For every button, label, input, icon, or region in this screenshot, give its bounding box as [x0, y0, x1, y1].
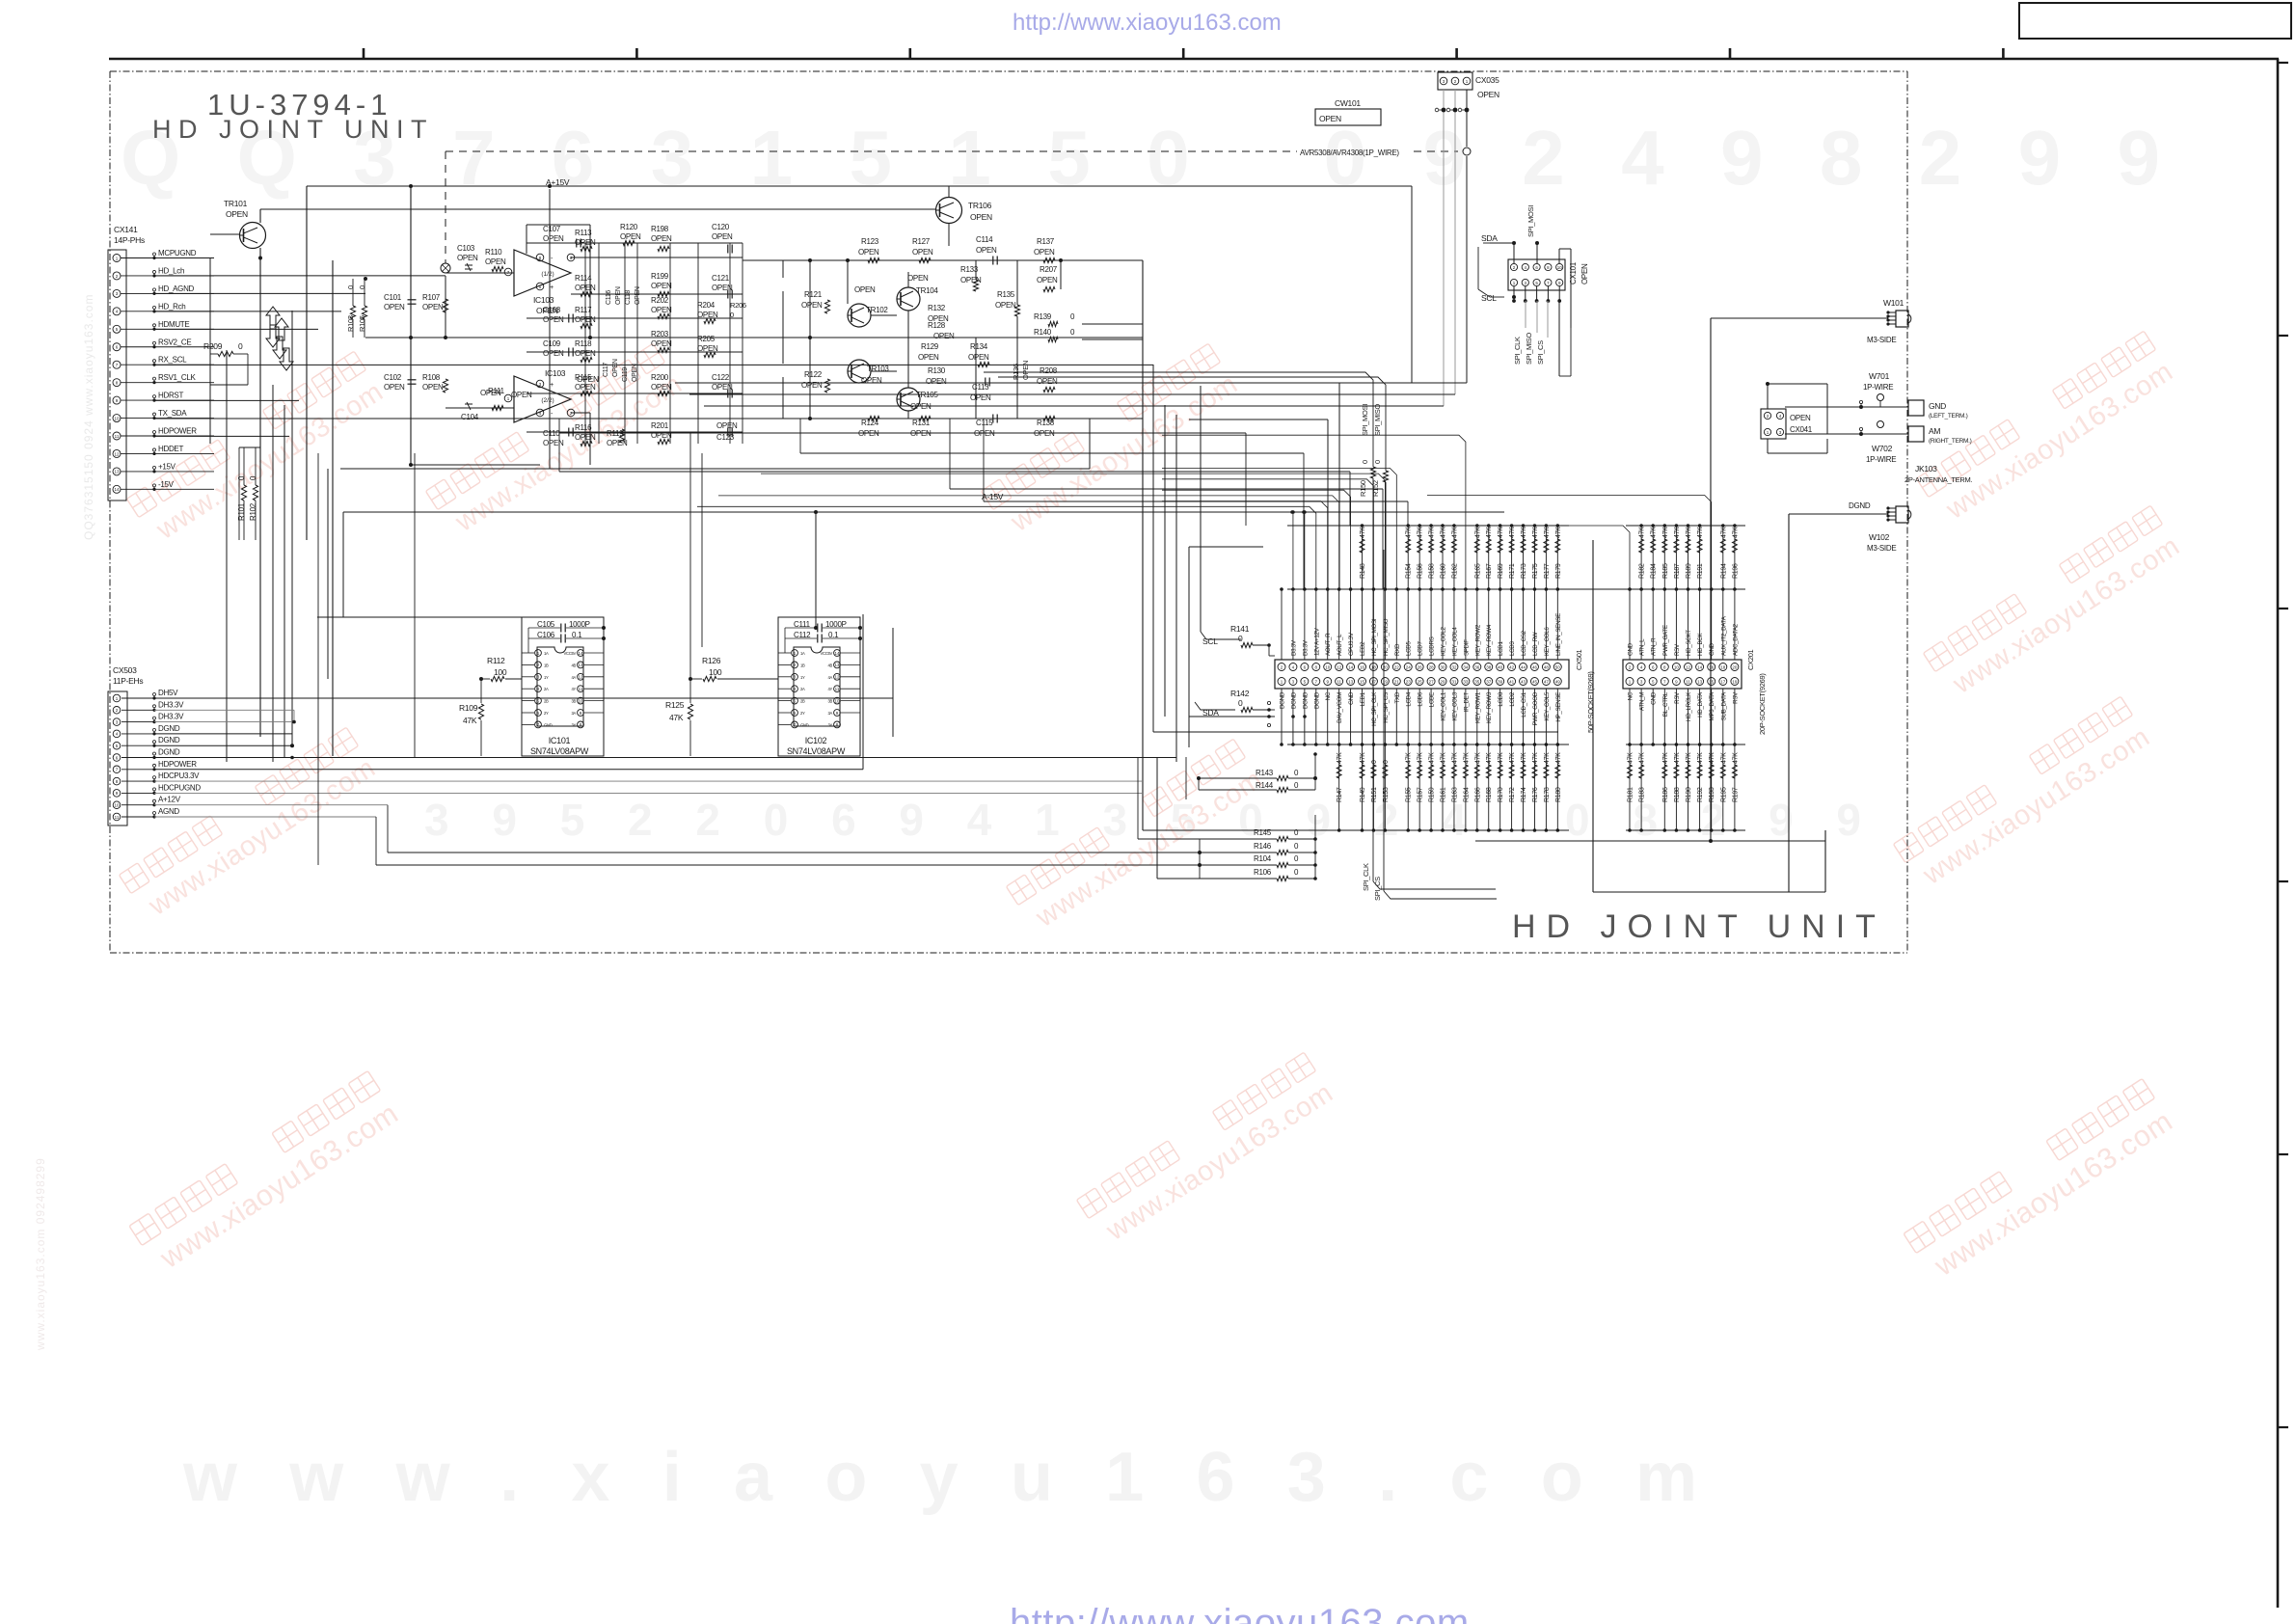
svg-text:13: 13 — [834, 663, 840, 667]
svg-text:R115: R115 — [575, 373, 592, 382]
svg-text:13: 13 — [578, 663, 583, 667]
svg-text:18: 18 — [1371, 664, 1377, 669]
svg-text:R110: R110 — [485, 248, 502, 257]
svg-text:NC: NC — [1628, 691, 1634, 700]
svg-text:47K: 47K — [669, 713, 684, 722]
svg-text:HDPOWER: HDPOWER — [158, 427, 197, 436]
svg-text:1A: 1A — [544, 651, 549, 656]
svg-text:1P-WIRE: 1P-WIRE — [1866, 455, 1896, 464]
wire CX201 column 5 — [1672, 663, 1680, 671]
svg-text:OPEN: OPEN — [995, 301, 1016, 310]
svg-text:11: 11 — [115, 815, 120, 820]
svg-text:R149: R149 — [1360, 787, 1366, 802]
svg-text:10: 10 — [578, 698, 583, 703]
svg-text:47K: 47K — [1697, 527, 1704, 538]
svg-text:47K: 47K — [1474, 527, 1481, 538]
svg-text:0: 0 — [1238, 698, 1243, 708]
svg-text:R104: R104 — [1254, 854, 1272, 863]
svg-text:47K: 47K — [1697, 752, 1704, 764]
svg-text:SPI_MISO: SPI_MISO — [1373, 404, 1382, 436]
resistor R156 47K — [1418, 526, 1420, 589]
svg-text:47K: 47K — [1532, 527, 1539, 538]
svg-text:0: 0 — [1383, 760, 1390, 764]
svg-text:1B: 1B — [800, 663, 805, 667]
svg-text:OPEN: OPEN — [422, 383, 444, 392]
connector W102 — [1789, 501, 1911, 892]
wire CX501 column 5 — [1327, 589, 1329, 660]
svg-text:OPEN: OPEN — [651, 339, 672, 348]
svg-text:R207: R207 — [1040, 265, 1058, 274]
resistor R157 47K — [1418, 744, 1420, 830]
svg-text:DGND: DGND — [1302, 691, 1309, 709]
connector CX501 50P-SOCKET — [697, 435, 1745, 832]
svg-text:VCC5V: VCC5V — [821, 651, 833, 656]
svg-text:47K: 47K — [1418, 527, 1424, 538]
svg-text:CX141: CX141 — [114, 225, 138, 234]
wire CX501 column 10 — [1384, 589, 1386, 660]
svg-text:OPEN: OPEN — [854, 285, 876, 294]
svg-text:LCD1: LCD1 — [1498, 641, 1504, 656]
svg-text:C114: C114 — [976, 235, 993, 244]
svg-text:CX501: CX501 — [1575, 649, 1583, 670]
svg-text:OPEN: OPEN — [858, 248, 879, 257]
svg-text:DGND: DGND — [1280, 691, 1286, 709]
connector CX041 — [1761, 382, 1827, 453]
svg-text:R118: R118 — [575, 339, 592, 348]
resistor R209 — [203, 341, 248, 385]
connector W101 — [1711, 298, 1911, 841]
svg-text:R126: R126 — [702, 656, 721, 665]
svg-text:R107: R107 — [422, 293, 441, 302]
svg-text:OPEN: OPEN — [1580, 263, 1589, 284]
svg-text:3Y: 3Y — [827, 722, 832, 727]
svg-text:38: 38 — [1486, 664, 1492, 669]
resistor R178 47K — [1545, 744, 1547, 830]
wire rows from CX141 — [154, 275, 446, 277]
svg-text:R201: R201 — [651, 421, 669, 430]
svg-text:DAV_VCOM: DAV_VCOM — [1337, 692, 1343, 723]
svg-text:R125: R125 — [665, 700, 685, 710]
wire CX501 column 16 — [1453, 589, 1455, 660]
svg-text:OPEN: OPEN — [918, 353, 939, 362]
svg-text:+: + — [550, 382, 554, 389]
svg-text:R155: R155 — [1406, 787, 1413, 802]
resistor R189 47K — [1688, 526, 1689, 589]
svg-text:+: + — [550, 284, 554, 291]
svg-text:R183: R183 — [1639, 787, 1646, 802]
wire CX201 column 7 — [1696, 663, 1704, 671]
svg-text:4A: 4A — [571, 675, 576, 680]
resistors R101 R102 vertical — [237, 447, 260, 540]
svg-text:R173: R173 — [1521, 563, 1527, 579]
svg-text:CX101: CX101 — [1569, 261, 1578, 284]
svg-text:R106: R106 — [1254, 868, 1272, 877]
svg-text:C113: C113 — [972, 383, 989, 392]
svg-text:14: 14 — [1697, 664, 1703, 669]
svg-text:HC_SPI_MOSI: HC_SPI_MOSI — [1371, 618, 1378, 656]
svg-text:2B: 2B — [800, 699, 805, 704]
svg-text:R114: R114 — [575, 274, 592, 283]
svg-text:KEY_COL3: KEY_COL3 — [1451, 691, 1458, 720]
svg-text:10: 10 — [114, 803, 120, 808]
svg-text:HDDET: HDDET — [158, 445, 183, 453]
svg-text:33: 33 — [1463, 679, 1469, 684]
svg-text:R188: R188 — [1674, 787, 1681, 802]
svg-text:16: 16 — [1360, 664, 1365, 669]
svg-text:C116: C116 — [606, 290, 612, 305]
svg-text:OPEN: OPEN — [910, 429, 932, 438]
svg-text:1P-WIRE: 1P-WIRE — [1863, 383, 1893, 392]
svg-text:HC_SPI_CS: HC_SPI_CS — [1383, 692, 1390, 723]
svg-text:OPEN: OPEN — [933, 332, 955, 340]
svg-text:2A: 2A — [800, 687, 805, 691]
svg-text:R192: R192 — [1697, 787, 1704, 802]
jumper CW101 — [1315, 98, 1381, 125]
svg-text:14: 14 — [578, 651, 583, 656]
svg-text:OPEN: OPEN — [543, 349, 564, 358]
svg-text:47K: 47K — [1451, 752, 1458, 764]
svg-text:C115: C115 — [976, 419, 993, 427]
svg-text:MCPUGND: MCPUGND — [158, 249, 197, 257]
svg-text:SN74LV08APW: SN74LV08APW — [530, 746, 589, 756]
svg-text:R186: R186 — [1662, 787, 1669, 802]
svg-text:OPEN: OPEN — [612, 359, 619, 377]
svg-text:SPI_CS: SPI_CS — [1373, 877, 1382, 901]
svg-text:R182: R182 — [1639, 563, 1646, 579]
resistor R158 47K — [1430, 526, 1432, 589]
svg-text:R169: R169 — [1498, 563, 1504, 579]
svg-text:R156: R156 — [1418, 563, 1424, 579]
svg-text:OPEN: OPEN — [226, 209, 248, 219]
svg-text:OPEN: OPEN — [543, 234, 564, 243]
svg-text:CX035: CX035 — [1475, 75, 1499, 85]
svg-text:OPEN: OPEN — [1037, 377, 1058, 386]
svg-text:R206: R206 — [730, 301, 746, 310]
svg-text:DGND: DGND — [158, 748, 180, 757]
resistor R166 47K — [1476, 744, 1478, 830]
wire CX501 column 15 — [1442, 589, 1444, 660]
svg-text:MP3_DATA: MP3_DATA — [1709, 691, 1715, 721]
resistor R192 47K — [1699, 744, 1701, 830]
svg-text:12: 12 — [114, 451, 120, 456]
svg-text:R102: R102 — [249, 502, 257, 521]
resistor R155 47K — [1407, 744, 1409, 830]
svg-text:47K: 47K — [1555, 527, 1562, 538]
svg-text:12: 12 — [578, 675, 583, 680]
svg-text:17: 17 — [1720, 679, 1726, 684]
svg-text:A+15V: A+15V — [546, 177, 570, 187]
svg-text:DGND: DGND — [158, 736, 180, 744]
svg-text:R129: R129 — [921, 342, 939, 351]
svg-text:LED1: LED1 — [1360, 691, 1366, 706]
wire W702 — [1859, 421, 1896, 465]
svg-text:13: 13 — [114, 470, 120, 474]
svg-text:R196: R196 — [1732, 563, 1739, 579]
wire CX501 column 21 — [1511, 589, 1513, 660]
svg-text:AUX_IT2_DATA: AUX_IT2_DATA — [1720, 615, 1727, 656]
svg-text:11: 11 — [115, 434, 120, 439]
CX503 wires — [154, 614, 1176, 817]
resistor R191 47K — [1699, 526, 1701, 589]
svg-text:JK103: JK103 — [1915, 464, 1937, 474]
svg-text:47K: 47K — [1509, 527, 1516, 538]
svg-text:D3.3V: D3.3V — [1290, 639, 1297, 656]
svg-text:DGND: DGND — [1313, 691, 1320, 709]
svg-text:R193: R193 — [1709, 787, 1715, 802]
svg-text:12V A+12V: 12V A+12V — [1313, 627, 1320, 656]
svg-text:C102: C102 — [384, 373, 402, 382]
svg-text:LCD2: LCD2 — [1509, 691, 1516, 706]
svg-text:IC101: IC101 — [549, 736, 571, 745]
svg-text:47K: 47K — [1662, 752, 1669, 764]
svg-text:DH3.3V: DH3.3V — [158, 700, 184, 709]
svg-text:R166: R166 — [1474, 787, 1481, 802]
svg-text:1Y: 1Y — [800, 675, 805, 680]
svg-text:39: 39 — [1498, 679, 1503, 684]
svg-text:OPEN: OPEN — [1034, 248, 1055, 257]
svg-text:R153: R153 — [1383, 787, 1390, 802]
svg-text:47K: 47K — [1555, 752, 1562, 764]
svg-text:22: 22 — [1394, 664, 1400, 669]
svg-text:IC103: IC103 — [545, 368, 566, 378]
svg-text:R140: R140 — [1034, 328, 1052, 337]
svg-text:3B: 3B — [571, 699, 576, 704]
svg-text:47K: 47K — [1686, 527, 1692, 538]
svg-text:R141: R141 — [1230, 624, 1250, 634]
IC IC101 — [522, 617, 604, 756]
capacitor C-IC102 — [785, 620, 862, 730]
svg-text:ATN_L: ATN_L — [1639, 638, 1646, 656]
resistor R175 47K — [1533, 526, 1535, 589]
svg-text:47K: 47K — [1360, 527, 1366, 538]
svg-text:R168: R168 — [1486, 787, 1493, 802]
svg-text:R135: R135 — [997, 290, 1015, 299]
svg-text:R209: R209 — [203, 341, 223, 351]
svg-text:C104: C104 — [461, 413, 479, 421]
svg-text:OPEN: OPEN — [651, 234, 672, 243]
resistor R187 47K — [1675, 526, 1677, 589]
svg-text:21: 21 — [1394, 679, 1400, 684]
svg-text:C108: C108 — [543, 306, 561, 314]
svg-text:R165: R165 — [1474, 563, 1481, 579]
svg-text:SPI_CLK: SPI_CLK — [1513, 337, 1522, 365]
svg-text:10: 10 — [1674, 664, 1680, 669]
svg-text:13: 13 — [1697, 679, 1703, 684]
svg-text:0: 0 — [358, 285, 366, 289]
svg-text:10: 10 — [114, 416, 120, 420]
wire CX201 column 2 — [1637, 663, 1645, 671]
svg-text:47K: 47K — [1639, 752, 1646, 764]
svg-text:LCD3: LCD3 — [1509, 641, 1516, 656]
svg-text:SPDIF: SPDIF — [1463, 639, 1470, 656]
node junction circle — [441, 263, 450, 273]
svg-text:R174: R174 — [1521, 787, 1527, 802]
svg-text:4A: 4A — [827, 675, 832, 680]
svg-text:47K: 47K — [1406, 752, 1413, 764]
svg-text:GND: GND — [1628, 642, 1634, 656]
svg-text:R147: R147 — [1337, 787, 1343, 802]
wire CX501 column 7 — [1350, 589, 1352, 660]
svg-text:10: 10 — [1325, 664, 1331, 669]
svg-text:NC: NC — [1325, 691, 1332, 700]
svg-text:14: 14 — [834, 651, 840, 656]
svg-text:+15V: +15V — [158, 462, 176, 471]
svg-text:R179: R179 — [1555, 563, 1562, 579]
svg-text:HD_DATA: HD_DATA — [1697, 691, 1704, 717]
svg-text:4Y: 4Y — [827, 687, 832, 691]
svg-text:47K: 47K — [1639, 527, 1646, 538]
svg-text:OPEN: OPEN — [712, 232, 733, 241]
svg-text:GND: GND — [1651, 691, 1658, 705]
svg-text:HDRST: HDRST — [158, 392, 183, 400]
svg-text:DGND: DGND — [158, 724, 180, 733]
svg-text:OPEN: OPEN — [485, 257, 506, 266]
svg-text:OPEN: OPEN — [968, 353, 989, 362]
svg-text:R198: R198 — [651, 225, 669, 233]
svg-text:M3-SIDE: M3-SIDE — [1867, 544, 1896, 553]
svg-text:43: 43 — [1521, 679, 1526, 684]
svg-text:SUB_DATA: SUB_DATA — [1720, 691, 1727, 721]
wire CX501 column 3 — [1304, 589, 1306, 660]
small components analog section — [346, 223, 746, 447]
svg-text:47K: 47K — [1686, 752, 1692, 764]
svg-text:RSV: RSV — [1674, 691, 1681, 704]
svg-text:KEY_COL6: KEY_COL6 — [1544, 627, 1551, 656]
svg-text:http://www.xiaoyu163.com: http://www.xiaoyu163.com — [1013, 10, 1282, 36]
svg-text:R161: R161 — [1441, 787, 1447, 802]
svg-text:PWR_GOOD: PWR_GOOD — [1532, 691, 1539, 725]
svg-text:47K: 47K — [1532, 752, 1539, 764]
resistor R194 47K — [1722, 526, 1724, 589]
svg-text:47K: 47K — [1429, 752, 1436, 764]
svg-text:VCC5V: VCC5V — [564, 651, 577, 656]
connector CX141 — [108, 225, 214, 501]
svg-text:GND: GND — [1348, 691, 1355, 705]
svg-text:47K: 47K — [1360, 752, 1366, 764]
wire CX501 column 9 — [1372, 589, 1374, 660]
svg-text:R162: R162 — [1451, 563, 1458, 579]
svg-text:LCD_CS2: LCD_CS2 — [1521, 630, 1527, 656]
svg-text:4B: 4B — [827, 663, 832, 667]
svg-text:C101: C101 — [384, 293, 402, 302]
svg-text:40: 40 — [1498, 664, 1503, 669]
svg-text:11: 11 — [1686, 679, 1690, 684]
wire CX201 fan 8 — [1427, 496, 1712, 590]
svg-text:R167: R167 — [1486, 563, 1493, 579]
svg-text:HD JOINT UNIT: HD JOINT UNIT — [1512, 908, 1886, 945]
svg-text:3A: 3A — [827, 711, 832, 716]
resistor R181 47K — [1629, 744, 1631, 830]
svg-text:R154: R154 — [1406, 563, 1413, 579]
svg-text:KEY_COL4: KEY_COL4 — [1451, 627, 1458, 656]
svg-text:OPEN: OPEN — [974, 429, 995, 438]
svg-text:C109: C109 — [543, 339, 561, 348]
svg-text:HD_AGND: HD_AGND — [158, 284, 195, 293]
wire CX501 column 25 — [1556, 589, 1558, 660]
svg-text:W701: W701 — [1869, 371, 1890, 381]
wire W701 — [1859, 371, 1893, 409]
wire CX501 column 1 — [1281, 589, 1283, 660]
svg-text:47K: 47K — [1429, 527, 1436, 538]
connector CX201 20P-SOCKET — [1427, 496, 1767, 832]
resistor R171 47K — [1511, 526, 1513, 589]
wire CX501 column 24 — [1545, 589, 1547, 660]
svg-text:C119: C119 — [622, 367, 629, 382]
resistor R164 47K — [1465, 744, 1467, 830]
svg-text:13: 13 — [1348, 679, 1354, 684]
svg-text:R172: R172 — [1509, 787, 1516, 802]
svg-text:LCD5: LCD5 — [1406, 641, 1413, 656]
wire CX501 column 8 — [1362, 589, 1364, 660]
svg-text:W102: W102 — [1869, 532, 1890, 542]
svg-text:HD_Lch: HD_Lch — [158, 266, 184, 275]
svg-text:47K: 47K — [1441, 752, 1447, 764]
svg-text:4Y: 4Y — [571, 687, 576, 691]
svg-text:19: 19 — [1732, 679, 1738, 684]
svg-text:ATN_M: ATN_M — [1639, 692, 1646, 711]
svg-text:LCD7: LCD7 — [1418, 641, 1424, 656]
svg-text:26: 26 — [1418, 664, 1423, 669]
svg-text:OPEN: OPEN — [543, 315, 564, 324]
svg-text:CX041: CX041 — [1790, 425, 1813, 434]
svg-text:2Y: 2Y — [544, 711, 549, 716]
svg-text:R195: R195 — [1720, 787, 1727, 802]
resistor R161 47K — [1442, 744, 1444, 830]
svg-text:OPEN: OPEN — [976, 246, 997, 255]
svg-text:ADC_DATA2: ADC_DATA2 — [1732, 623, 1739, 656]
wire CX501 column 19 — [1488, 589, 1490, 660]
svg-text:47K: 47K — [1441, 527, 1447, 538]
svg-text:OPEN: OPEN — [1319, 114, 1341, 123]
svg-text:OPEN: OPEN — [422, 303, 444, 311]
svg-text:18: 18 — [1720, 664, 1726, 669]
svg-text:10: 10 — [1557, 265, 1563, 270]
svg-text:47K: 47K — [1521, 527, 1527, 538]
svg-text:OPEN: OPEN — [970, 212, 992, 222]
svg-text:29: 29 — [1441, 679, 1446, 684]
svg-text:47K: 47K — [1544, 527, 1551, 538]
resistor R147 47K — [1338, 744, 1340, 830]
svg-text:R117: R117 — [575, 306, 592, 314]
svg-text:47K: 47K — [1474, 752, 1481, 764]
svg-text:R111: R111 — [488, 387, 505, 395]
svg-text:16: 16 — [1709, 664, 1715, 669]
connector CX503 — [108, 665, 201, 826]
resistor R188 47K — [1675, 744, 1677, 830]
resistor R159 47K — [1430, 744, 1432, 830]
svg-text:OPEN: OPEN — [651, 282, 672, 290]
svg-text:47K: 47K — [1651, 527, 1658, 538]
svg-text:R194: R194 — [1720, 563, 1727, 579]
resistor R174 47K — [1523, 744, 1525, 830]
wire CX201 fan 1 — [1427, 526, 1630, 589]
svg-text:SPI_MOSI: SPI_MOSI — [1526, 205, 1535, 237]
svg-text:OPEN: OPEN — [651, 306, 672, 314]
svg-text:32: 32 — [1451, 664, 1457, 669]
svg-text:R122: R122 — [804, 370, 823, 379]
svg-text:11P-EHs: 11P-EHs — [113, 676, 143, 686]
svg-text:41: 41 — [1509, 679, 1515, 684]
resistor R185 47K — [1663, 526, 1665, 589]
wire CX501 column 13 — [1418, 589, 1420, 660]
svg-text:R204: R204 — [697, 301, 716, 310]
svg-text:20: 20 — [1732, 664, 1738, 669]
svg-text:R175: R175 — [1532, 563, 1539, 579]
svg-text:RSV1_CLK: RSV1_CLK — [158, 373, 196, 382]
svg-text:R187: R187 — [1674, 563, 1681, 579]
resistors R145 R146 R104 R106 — [1198, 540, 1497, 901]
svg-text:R163: R163 — [1451, 787, 1458, 802]
